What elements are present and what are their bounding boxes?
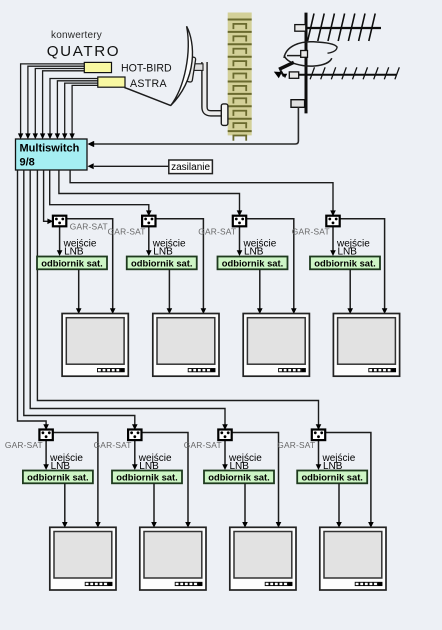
svg-text:GAR-SAT: GAR-SAT [198,226,236,236]
svg-text:GAR-SAT: GAR-SAT [184,440,222,450]
svg-text:odbiornik sat.: odbiornik sat. [222,257,283,268]
svg-text:odbiornik sat.: odbiornik sat. [301,471,362,482]
svg-text:konwertery: konwertery [51,30,102,41]
svg-text:zasilanie: zasilanie [171,162,210,173]
svg-text:odbiornik sat.: odbiornik sat. [208,471,269,482]
svg-text:odbiornik sat.: odbiornik sat. [116,471,177,482]
svg-text:odbiornik sat.: odbiornik sat. [314,257,375,268]
svg-text:GAR-SAT: GAR-SAT [108,226,146,236]
svg-text:GAR-SAT: GAR-SAT [70,222,108,232]
svg-text:GAR-SAT: GAR-SAT [292,226,330,236]
svg-text:GAR-SAT: GAR-SAT [277,440,315,450]
svg-text:odbiornik sat.: odbiornik sat. [27,471,88,482]
svg-text:HOT-BIRD: HOT-BIRD [121,63,172,75]
svg-text:QUATRO: QUATRO [47,43,120,60]
svg-text:GAR-SAT: GAR-SAT [94,440,132,450]
svg-text:odbiornik sat.: odbiornik sat. [131,257,192,268]
svg-text:GAR-SAT: GAR-SAT [5,440,43,450]
svg-text:odbiornik sat.: odbiornik sat. [41,257,102,268]
svg-text:ASTRA: ASTRA [130,78,167,90]
svg-text:Multiswitch: Multiswitch [20,143,80,155]
svg-text:9/8: 9/8 [20,157,35,169]
